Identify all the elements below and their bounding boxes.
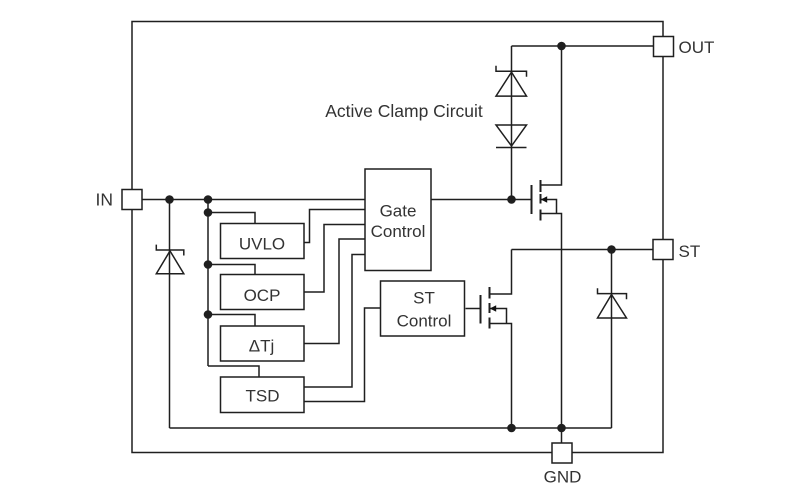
wire TSD output 2 to ST Control bbox=[304, 308, 380, 402]
block OCP bbox=[221, 275, 305, 310]
wire dTj tap bbox=[208, 315, 255, 327]
wire OUT rail bbox=[512, 45, 654, 47]
transistor Q1 (output MOSFET) bbox=[532, 180, 557, 221]
wire Gate Control output to Q1 gate bbox=[431, 199, 532, 201]
pin ST bbox=[653, 240, 673, 260]
wire TSD tap bbox=[208, 366, 259, 377]
wire internal bus vertical bbox=[207, 200, 209, 367]
svg-text:OUT: OUT bbox=[679, 38, 715, 57]
node bus dTj junction bbox=[204, 310, 213, 319]
block ST Control bbox=[381, 281, 465, 336]
wire left zener branch (IN junction down to bottom rail) bbox=[169, 200, 171, 429]
wire GND stub bbox=[561, 428, 563, 443]
wire Q1 drain bbox=[541, 46, 562, 185]
wire ST Control output to Q2 gate bbox=[466, 308, 481, 310]
zener diode D1 (IN clamp) bbox=[156, 245, 184, 274]
wire Q2 drain bbox=[490, 250, 512, 295]
svg-text:UVLO: UVLO bbox=[239, 234, 285, 253]
wire IN rail (IN pin to Gate Control) bbox=[142, 199, 365, 201]
svg-text:ΔTj: ΔTj bbox=[249, 337, 275, 356]
pin IN bbox=[122, 190, 142, 210]
wire Q1 source to bottom rail bbox=[541, 214, 562, 429]
wire right zener branch bbox=[611, 250, 613, 429]
node bus OCP junction bbox=[204, 260, 213, 269]
node IN bus junction bbox=[204, 195, 213, 204]
svg-text:Control: Control bbox=[397, 312, 452, 331]
block UVLO bbox=[221, 224, 305, 259]
node bottom rail GND junction bbox=[557, 424, 566, 433]
wire ST rail bbox=[512, 249, 654, 251]
wire active clamp branch vertical bbox=[511, 46, 513, 200]
node IN-zener junction bbox=[165, 195, 174, 204]
svg-text:Active Clamp Circuit: Active Clamp Circuit bbox=[325, 101, 483, 121]
zener diode D4 (ST clamp) bbox=[598, 288, 627, 318]
wire bottom rail bbox=[170, 427, 612, 429]
svg-text:Control: Control bbox=[371, 222, 426, 241]
svg-text:OCP: OCP bbox=[244, 286, 281, 305]
node bus UVLO junction bbox=[204, 208, 213, 217]
zener diode D2 (active clamp top) bbox=[496, 66, 527, 96]
block Gate Control bbox=[365, 169, 431, 271]
node ST zener junction bbox=[607, 245, 616, 254]
diode D3 (active clamp bottom) bbox=[496, 125, 527, 148]
svg-text:TSD: TSD bbox=[246, 386, 280, 405]
pin OUT bbox=[654, 37, 674, 57]
block dTj bbox=[221, 326, 305, 361]
svg-text:ST: ST bbox=[413, 289, 435, 308]
svg-text:ST: ST bbox=[679, 242, 701, 261]
wire OCP output to Gate Control bbox=[304, 225, 365, 293]
pin GND bbox=[552, 443, 572, 463]
svg-text:IN: IN bbox=[96, 189, 114, 209]
node bottom rail Q2 source junction bbox=[507, 424, 516, 433]
wire dTj output to Gate Control bbox=[304, 239, 365, 344]
node OUT drain junction bbox=[557, 42, 566, 51]
block TSD bbox=[221, 377, 305, 413]
wire Q2 source to bottom rail bbox=[490, 324, 512, 429]
wire UVLO output to Gate Control bbox=[304, 210, 365, 243]
wire TSD output 1 to Gate Control bbox=[304, 255, 365, 388]
wire UVLO tap bbox=[208, 213, 255, 224]
package outline border bbox=[132, 22, 663, 453]
node Q1 gate bbox=[507, 195, 516, 204]
svg-text:GND: GND bbox=[544, 468, 582, 487]
svg-text:Gate: Gate bbox=[380, 202, 417, 221]
wire OCP tap bbox=[208, 265, 255, 275]
transistor Q2 (ST MOSFET) bbox=[481, 287, 507, 329]
